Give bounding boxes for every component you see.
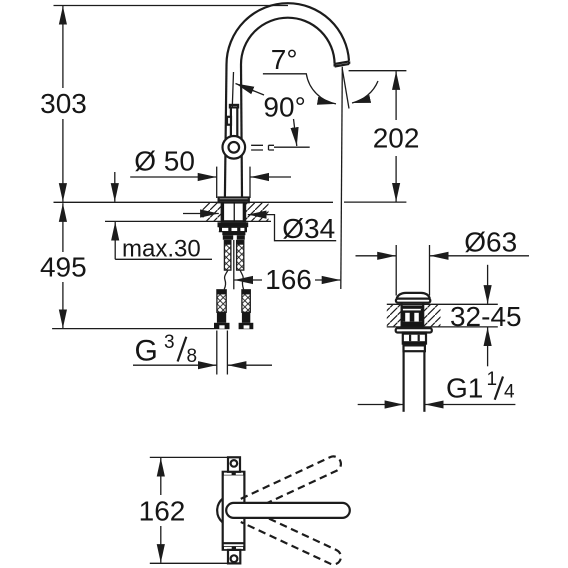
dimension 32-45	[487, 265, 489, 304]
dimension G1 1/4	[358, 404, 404, 406]
svg-text:495: 495	[40, 252, 87, 283]
dashed lever upper	[241, 454, 344, 512]
cartridge bulge	[217, 499, 223, 523]
hose break squiggle left	[224, 270, 228, 289]
dimension G3/8	[133, 364, 217, 366]
solid lever	[226, 503, 350, 518]
svg-text:202: 202	[373, 123, 420, 154]
outlet tilt line	[342, 69, 349, 109]
spout outlet aerator	[335, 61, 350, 66]
dimension max.30	[114, 172, 116, 202]
dimension D63	[356, 255, 396, 257]
counter bottom line	[105, 220, 271, 222]
dashed lever lower	[241, 508, 344, 566]
spout left leg	[225, 65, 227, 198]
svg-text:32-45: 32-45	[450, 301, 522, 332]
svg-text:162: 162	[139, 496, 186, 527]
svg-text:Ø63: Ø63	[464, 227, 517, 258]
hose upper left	[224, 241, 231, 271]
spout outer arc	[227, 3, 350, 64]
hose connector left	[217, 312, 226, 323]
drain tailpipe	[403, 351, 405, 412]
shank band	[222, 232, 245, 236]
baseline hose ends	[52, 328, 214, 330]
hatch counter left	[203, 203, 222, 221]
lever rod	[231, 106, 237, 142]
mounting nut	[222, 203, 245, 222]
drain hatch left	[387, 305, 401, 327]
washer	[218, 222, 249, 227]
drain body	[402, 303, 424, 329]
svg-text:max.30: max.30	[122, 236, 201, 263]
dimension 202 extension lines	[349, 70, 407, 72]
drain D63 extension lines	[395, 245, 397, 296]
hatch counter right	[246, 203, 269, 221]
lever rod cap	[230, 105, 238, 108]
svg-text:1: 1	[487, 369, 498, 390]
svg-text:4: 4	[504, 382, 515, 403]
svg-text:Ø34: Ø34	[282, 213, 335, 244]
svg-text:8: 8	[187, 346, 198, 367]
lever horizontal center line	[274, 146, 310, 148]
svg-text:166: 166	[265, 264, 312, 295]
dimension G3/8 extension lines	[216, 331, 218, 375]
faucet axis line	[233, 240, 235, 289]
dimension D50 extension lines	[216, 167, 218, 198]
svg-text:7°: 7°	[271, 44, 298, 75]
hose connector right	[242, 312, 250, 323]
pivot inner circle	[229, 142, 240, 153]
drain locknut flange	[396, 328, 432, 332]
svg-text:303: 303	[40, 88, 87, 119]
drain hatch right	[424, 305, 441, 327]
hose upper right	[237, 241, 244, 271]
hose break squiggle right	[240, 270, 243, 289]
drain counter bottom line	[387, 326, 498, 328]
7 deg reference line and arc left	[263, 74, 336, 104]
dimension 303	[62, 6, 64, 88]
drain skirt	[403, 344, 426, 346]
escutcheon plate	[219, 198, 249, 203]
svg-text:Ø 50: Ø 50	[134, 146, 195, 177]
horizontal lever broken lines	[251, 145, 274, 150]
lever rod notch	[227, 117, 231, 125]
shank bottom blocks	[223, 235, 233, 240]
dimension D34	[183, 213, 219, 215]
wire top extension line	[54, 5, 289, 7]
top view top tab	[228, 457, 240, 472]
90 deg leader down arrow	[294, 119, 297, 146]
dimension 202	[395, 71, 397, 120]
spout inner arc	[241, 18, 335, 65]
pivot circle	[223, 136, 246, 159]
water stream line	[341, 67, 343, 289]
top view body	[223, 472, 245, 550]
lock ring	[219, 227, 247, 231]
top view extension lines	[150, 456, 236, 458]
drain cap rim	[396, 299, 430, 303]
svg-text:G: G	[135, 335, 158, 368]
dimension 495	[62, 203, 64, 252]
svg-text:90°: 90°	[263, 91, 305, 122]
dimension 162	[160, 458, 162, 495]
hose lower left	[217, 290, 226, 313]
dimension D50	[130, 176, 216, 178]
7 deg arc right	[352, 81, 378, 103]
top view bottom tab	[228, 550, 240, 564]
lever axis line	[232, 72, 233, 107]
drain ribbed nut	[403, 333, 426, 344]
drain cap dome	[397, 293, 430, 299]
svg-text:G1: G1	[446, 373, 483, 404]
90 deg leader to lever axis	[236, 84, 265, 96]
dimension 166	[234, 279, 262, 281]
counter top line	[54, 201, 334, 203]
hose lower right	[242, 290, 250, 313]
svg-text:3: 3	[164, 332, 175, 353]
drain counter top line	[387, 303, 498, 305]
